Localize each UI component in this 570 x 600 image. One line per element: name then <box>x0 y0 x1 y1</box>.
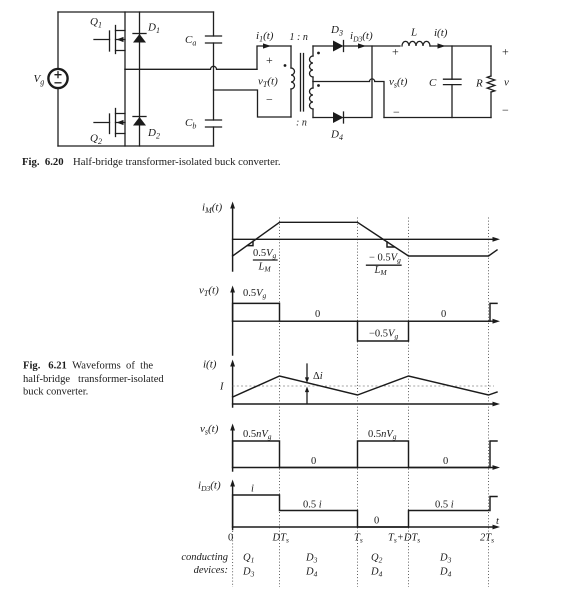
svg-text:i1(t): i1(t) <box>256 30 274 44</box>
node + label (primary port) <box>266 53 273 67</box>
svg-text:Half-bridge transformer-isolat: Half-bridge transformer-isolated buck co… <box>73 156 281 168</box>
svg-text:Fig. 6.21 Waveforms of th: Fig. 6.21 Waveforms of the <box>23 361 153 372</box>
wire node to primary top <box>257 46 291 69</box>
waveform iD3 <box>233 495 497 527</box>
axis iM vertical <box>230 202 235 272</box>
wire bottom rail <box>58 145 214 147</box>
label 0 (vT second) <box>441 309 446 320</box>
svg-text:+: + <box>502 45 509 59</box>
label -0.5Vg/LM fraction <box>367 252 402 277</box>
svg-text:half-bridge transformer-isol: half-bridge transformer-isolated <box>23 374 164 385</box>
svg-text:+: + <box>392 45 399 59</box>
axis iD3 vertical <box>230 480 235 530</box>
svg-text:−0.5Vg: −0.5Vg <box>369 329 398 341</box>
transformer primary winding <box>291 46 295 117</box>
slope marker right <box>387 242 394 247</box>
axis i vertical <box>230 360 235 408</box>
wire left rail lower <box>57 88 59 146</box>
svg-text:R: R <box>475 78 483 90</box>
label iD3(t) <box>198 480 221 494</box>
label 0.5Vg (vT) <box>243 288 267 300</box>
wire mid rail with hop over capacitor rail <box>125 66 257 69</box>
transformer primary dot <box>284 64 287 67</box>
output v label <box>504 77 509 89</box>
svg-text:0: 0 <box>374 516 379 527</box>
waveform iM <box>233 222 497 256</box>
wire output bottom rail <box>384 117 491 119</box>
svg-text:vs(t): vs(t) <box>200 423 219 437</box>
svg-text:vT(t): vT(t) <box>258 76 278 90</box>
svg-text:: n: : n <box>296 118 307 129</box>
diode D1 <box>133 12 160 69</box>
dashed level I <box>233 385 494 387</box>
label vT(t) <box>199 285 219 299</box>
wire D4 cathode up to node <box>344 46 373 118</box>
svg-text:i(t): i(t) <box>203 359 217 371</box>
output minus label <box>502 103 509 117</box>
caption Fig 6.20 <box>22 156 281 168</box>
wire secondary top to D3 <box>313 45 333 47</box>
axis iM horizontal <box>233 237 500 242</box>
inductor L <box>402 27 430 47</box>
capacitor Ca <box>185 12 222 120</box>
label 0.5Vg/LM fraction <box>253 248 277 274</box>
svg-text:0.5nVg: 0.5nVg <box>368 429 397 441</box>
label 0 (vT first) <box>315 309 320 320</box>
label 0 (iD3) <box>374 516 379 527</box>
wire L to output node, current i(t) arrow <box>430 27 491 49</box>
wire center tap with hop, down to output minus rail <box>313 79 384 118</box>
wire secondary bottom to D4 <box>313 117 333 119</box>
dashed grid line Ts <box>357 218 359 588</box>
diode D3 <box>330 24 344 52</box>
label 0.5i first <box>303 500 322 511</box>
delta-i arrows <box>305 364 323 403</box>
axis vT vertical <box>230 286 235 356</box>
transformer secondary lower winding <box>310 82 314 118</box>
waveform vs <box>233 441 497 468</box>
capacitor Cb <box>185 117 222 146</box>
wire capacitor junction to primary bottom <box>214 90 292 117</box>
diode D4 <box>330 112 344 142</box>
label i level <box>251 484 254 495</box>
wire left rail upper <box>57 12 59 69</box>
axis vs vertical <box>230 424 235 472</box>
node minus label (primary port) <box>266 93 273 107</box>
svg-text:i: i <box>251 484 254 495</box>
label I <box>219 382 224 393</box>
node vT(t) label <box>258 76 278 90</box>
waveform i <box>233 376 497 397</box>
label iM(t) <box>202 202 222 216</box>
dashed grid line DTs <box>279 218 281 588</box>
conducting devices labels <box>181 552 451 579</box>
label 0.5nVg second <box>368 429 397 441</box>
svg-text:buck converter.: buck converter. <box>23 387 88 398</box>
svg-text:0: 0 <box>315 309 320 320</box>
time labels row <box>228 533 494 545</box>
dashed grid line Ts+DTs <box>408 218 410 588</box>
svg-text:Δi: Δi <box>313 371 323 382</box>
current label i1(t) with arrow <box>256 30 274 49</box>
resistor R <box>475 46 495 118</box>
wire D3 to node, current iD3 arrow <box>344 30 401 49</box>
node vs(t) label <box>389 76 408 90</box>
svg-text:−: − <box>502 103 509 117</box>
svg-text:− 0.5Vg: − 0.5Vg <box>369 252 401 264</box>
svg-text:devices:: devices: <box>194 565 228 576</box>
label t axis <box>496 516 500 527</box>
svg-text:0.5 i: 0.5 i <box>435 500 454 511</box>
node vs minus label <box>393 105 400 119</box>
svg-text:vs(t): vs(t) <box>389 76 408 90</box>
label vs(t) <box>200 423 219 437</box>
wire top rail <box>58 11 214 13</box>
label 0 (vs first) <box>311 456 316 467</box>
axis vT horizontal <box>233 319 500 324</box>
transistor Q2 <box>90 69 125 146</box>
svg-text:0: 0 <box>443 456 448 467</box>
svg-text:0: 0 <box>441 309 446 320</box>
svg-text:C: C <box>429 77 437 89</box>
axis vs horizontal <box>233 465 500 470</box>
svg-text:−: − <box>266 93 273 107</box>
output plus label <box>502 45 509 59</box>
label 0.5nVg first <box>243 429 272 441</box>
svg-text:vT(t): vT(t) <box>199 285 219 299</box>
svg-text:0.5 i: 0.5 i <box>303 500 322 511</box>
label 0 (vs second) <box>443 456 448 467</box>
label i(t) waveform <box>203 359 217 371</box>
svg-text:0: 0 <box>311 456 316 467</box>
transistor Q1 <box>90 12 125 69</box>
svg-text:L: L <box>410 27 417 39</box>
svg-text:I: I <box>219 382 224 393</box>
svg-text:0: 0 <box>228 533 233 544</box>
svg-text:1 : n: 1 : n <box>290 32 308 43</box>
label -0.5Vg (vT) <box>369 329 398 341</box>
svg-text:0.5nVg: 0.5nVg <box>243 429 272 441</box>
transformer secondary upper winding <box>310 46 314 82</box>
dashed grid line t=0 lower <box>232 531 234 587</box>
capacitor C <box>429 46 461 118</box>
transformer turns ratio label 1 : n <box>290 32 308 43</box>
svg-text:i(t): i(t) <box>434 27 448 39</box>
transformer core <box>301 54 304 112</box>
dashed grid line 2Ts <box>488 218 490 588</box>
caption Fig 6.21 <box>23 361 164 398</box>
label 0.5i second <box>435 500 454 511</box>
svg-text:+: + <box>266 53 273 67</box>
transformer secondary upper dot <box>317 52 320 55</box>
axis i horizontal <box>233 402 500 407</box>
svg-text:conducting: conducting <box>181 552 228 563</box>
transformer secondary lower dot <box>317 84 320 87</box>
waveform vT <box>233 303 497 341</box>
slope marker left <box>248 241 254 245</box>
voltage source Vg <box>34 69 68 88</box>
svg-text:v: v <box>504 77 509 89</box>
transformer turns ratio label : n <box>296 118 307 129</box>
svg-text:Fig. 6.20: Fig. 6.20 <box>22 156 64 168</box>
node vs plus label <box>392 45 399 59</box>
diode D2 <box>133 69 160 146</box>
axis iD3 horizontal <box>233 525 500 530</box>
svg-text:Ts+DTs: Ts+DTs <box>388 533 420 545</box>
